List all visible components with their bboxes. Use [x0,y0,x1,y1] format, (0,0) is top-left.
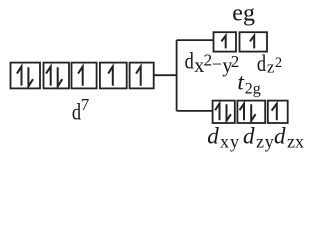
svg-text:d: d [274,123,286,148]
svg-text:xy: xy [220,131,240,151]
down electron arrow box2 [58,67,63,86]
orbital box 4 of d7 row [100,63,127,89]
svg-text:7: 7 [81,95,90,114]
svg-text:d: d [243,123,255,148]
t2g orbital box 2 [237,101,265,123]
wire to t2g boxes [177,110,213,112]
svg-text:eg: eg [232,1,255,27]
svg-text:d: d [185,47,195,74]
up electron arrow box1 [17,66,22,85]
up electron arrow box3 [78,66,83,85]
orbital box 2 of d7 row [44,63,70,89]
svg-text:2: 2 [231,52,240,71]
svg-text:zy: zy [256,131,275,151]
svg-text:2g: 2g [245,80,261,97]
svg-text:d: d [207,123,219,148]
orbital box 5 of d7 row [130,63,154,89]
t2g orbital box 1 [213,101,235,123]
up electron arrow box2 [46,66,51,85]
svg-text:−: − [212,54,222,74]
up electron arrow box4 [108,66,113,85]
bracket vertical wire [176,40,178,111]
orbital box 3 of d7 row [72,63,97,89]
up electron arrow t2g box2 [240,104,244,121]
up electron arrow box5 [136,66,141,85]
down electron arrow t2g box1 [227,104,231,121]
svg-text:t: t [237,69,244,95]
eg orbital box 2 [240,32,268,51]
t2g orbital box 3 [268,101,288,123]
svg-text:zx: zx [287,131,304,151]
svg-text:2: 2 [275,55,282,71]
up electron arrow eg box1 [221,36,225,49]
svg-text:z: z [267,58,275,77]
svg-text:d: d [257,50,267,77]
orbital box 1 of d7 row [11,63,41,89]
up electron arrow eg box2 [250,36,254,49]
wire to eg boxes [177,39,214,41]
up electron arrow t2g box3 [272,104,277,121]
up electron arrow t2g box1 [215,104,219,121]
down electron arrow t2g box2 [251,104,255,121]
eg orbital box 1 [214,32,237,51]
down electron arrow box1 [28,67,33,86]
wire from d7 row to bracket [154,74,177,76]
